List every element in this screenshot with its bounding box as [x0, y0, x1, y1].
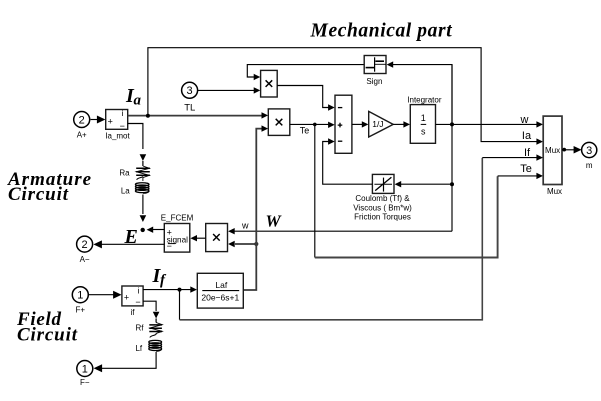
- port A-: [77, 236, 93, 252]
- wire Mux to out port: [562, 148, 566, 152]
- junction w-coulomb: [450, 182, 454, 186]
- svg-text:2: 2: [82, 239, 88, 251]
- svg-text:La: La: [121, 187, 130, 196]
- wire LafIf (bold) TF to product2: [243, 129, 263, 290]
- Mux block: [543, 116, 562, 184]
- transfer fcn Laf: [197, 273, 243, 308]
- wire w to Coulomb: [401, 183, 453, 185]
- wire sign out to product1: [247, 65, 364, 77]
- svg-text:1: 1: [82, 363, 88, 375]
- svg-text:1/J: 1/J: [372, 119, 383, 129]
- svg-text:i: i: [137, 285, 139, 295]
- wire Te product2 to sum: [290, 123, 329, 125]
- wire LafIf to product3 (bold): [235, 243, 256, 245]
- junction If: [178, 288, 182, 292]
- svg-text:m: m: [586, 161, 593, 170]
- wire gain to integrator: [393, 123, 404, 125]
- svg-text:Coulomb (Tf) &: Coulomb (Tf) &: [355, 194, 410, 203]
- wire w integrator to Mux: [436, 123, 538, 125]
- svg-text:f: f: [160, 273, 167, 289]
- wire if minus to Rf: [143, 301, 156, 311]
- svg-text:Ra: Ra: [119, 168, 130, 177]
- svg-text:1: 1: [421, 113, 426, 123]
- product block (Te) P2: [268, 109, 290, 135]
- port F+: [72, 287, 88, 303]
- wire w to product3: [234, 230, 453, 232]
- svg-text:2: 2: [79, 114, 85, 126]
- wire A+ to Ia_mot: [91, 119, 98, 121]
- wire product3 out to E_FCEM: [197, 237, 206, 239]
- svg-text:w: w: [241, 221, 249, 231]
- svg-text:Rf: Rf: [136, 323, 145, 332]
- svg-text:−: −: [135, 297, 140, 307]
- wire If to Mux (partly bold): [179, 290, 181, 320]
- svg-text:Friction Torques: Friction Torques: [354, 213, 411, 222]
- wire F+ to if: [89, 294, 115, 296]
- svg-text:Laf: Laf: [215, 280, 227, 290]
- port TL: [182, 82, 198, 98]
- svg-text:TL: TL: [184, 103, 195, 114]
- wire Ia (bold) Ia_mot to product Te: [128, 115, 264, 117]
- wire Te to Mux (partly bold): [314, 124, 316, 257]
- current sensor Ia_mot: [106, 110, 128, 130]
- svg-text:E: E: [124, 226, 138, 248]
- svg-text:+: +: [124, 293, 129, 303]
- gain 1/J: [369, 111, 394, 137]
- wire w feedback to Sign: [393, 65, 452, 125]
- svg-text:Te: Te: [300, 126, 310, 136]
- svg-text:20e−6s+1: 20e−6s+1: [201, 293, 239, 303]
- sum block: [335, 95, 352, 153]
- svg-text:i: i: [122, 108, 124, 118]
- wire Coulomb to sum: [323, 142, 373, 185]
- port A+: [74, 112, 90, 128]
- svg-text:Viscous ( Bm*w): Viscous ( Bm*w): [353, 203, 412, 212]
- svg-text:Mux: Mux: [547, 187, 562, 196]
- wire TL to product1: [198, 89, 255, 91]
- wire product1 to sum: [277, 86, 329, 108]
- wire w down to product3: [451, 65, 453, 232]
- port F-: [77, 361, 93, 377]
- svg-text:F−: F−: [80, 378, 90, 387]
- svg-text:Lf: Lf: [135, 344, 142, 353]
- svg-text:1: 1: [77, 290, 83, 302]
- current sensor if: [122, 286, 143, 306]
- svg-text:Circuit: Circuit: [17, 324, 78, 345]
- wire E_FCEM minus to A-: [98, 243, 164, 245]
- svg-text:Sign: Sign: [366, 77, 382, 86]
- svg-text:Circuit: Circuit: [8, 184, 69, 205]
- junction Te: [313, 123, 317, 127]
- svg-text:+: +: [108, 116, 113, 126]
- svg-text:3: 3: [586, 145, 592, 157]
- product block (E) P3: [206, 224, 228, 252]
- svg-text:a: a: [134, 93, 142, 109]
- svg-text:3: 3: [187, 85, 193, 97]
- wire Ia feedback to Mux: [148, 48, 537, 142]
- svg-text:A+: A+: [77, 131, 87, 140]
- svg-text:F+: F+: [76, 306, 86, 315]
- svg-text:−: −: [167, 241, 172, 251]
- Sign block: [364, 56, 386, 74]
- svg-text:Ia_mot: Ia_mot: [105, 132, 130, 141]
- svg-text:W: W: [266, 211, 283, 230]
- junction w: [450, 122, 454, 126]
- svg-text:Ia: Ia: [522, 130, 532, 142]
- wire sum to gain: [352, 123, 363, 125]
- node E junction: [141, 228, 145, 232]
- svg-text:s: s: [421, 127, 426, 137]
- Coulomb friction block: [372, 174, 394, 193]
- wire if to transfer fcn: [143, 289, 191, 291]
- svg-text:E_FCEM: E_FCEM: [161, 213, 194, 222]
- svg-text:Te: Te: [520, 163, 532, 175]
- svg-text:Mux: Mux: [545, 146, 560, 155]
- svg-text:Integrator: Integrator: [407, 95, 442, 104]
- svg-text:−: −: [120, 121, 125, 131]
- svg-text:A−: A−: [80, 255, 90, 264]
- svg-text:Mechanical part: Mechanical part: [310, 20, 453, 41]
- wire E_FCEM plus to node E: [153, 229, 164, 231]
- wire Ia_mot minus to Ra: [128, 124, 143, 150]
- svg-text:w: w: [520, 114, 529, 126]
- junction Ia node: [146, 114, 150, 118]
- junction LafIf: [254, 242, 258, 246]
- svg-text:if: if: [131, 308, 136, 317]
- product block (TL*sign) P1: [261, 70, 278, 97]
- port m: [582, 142, 597, 157]
